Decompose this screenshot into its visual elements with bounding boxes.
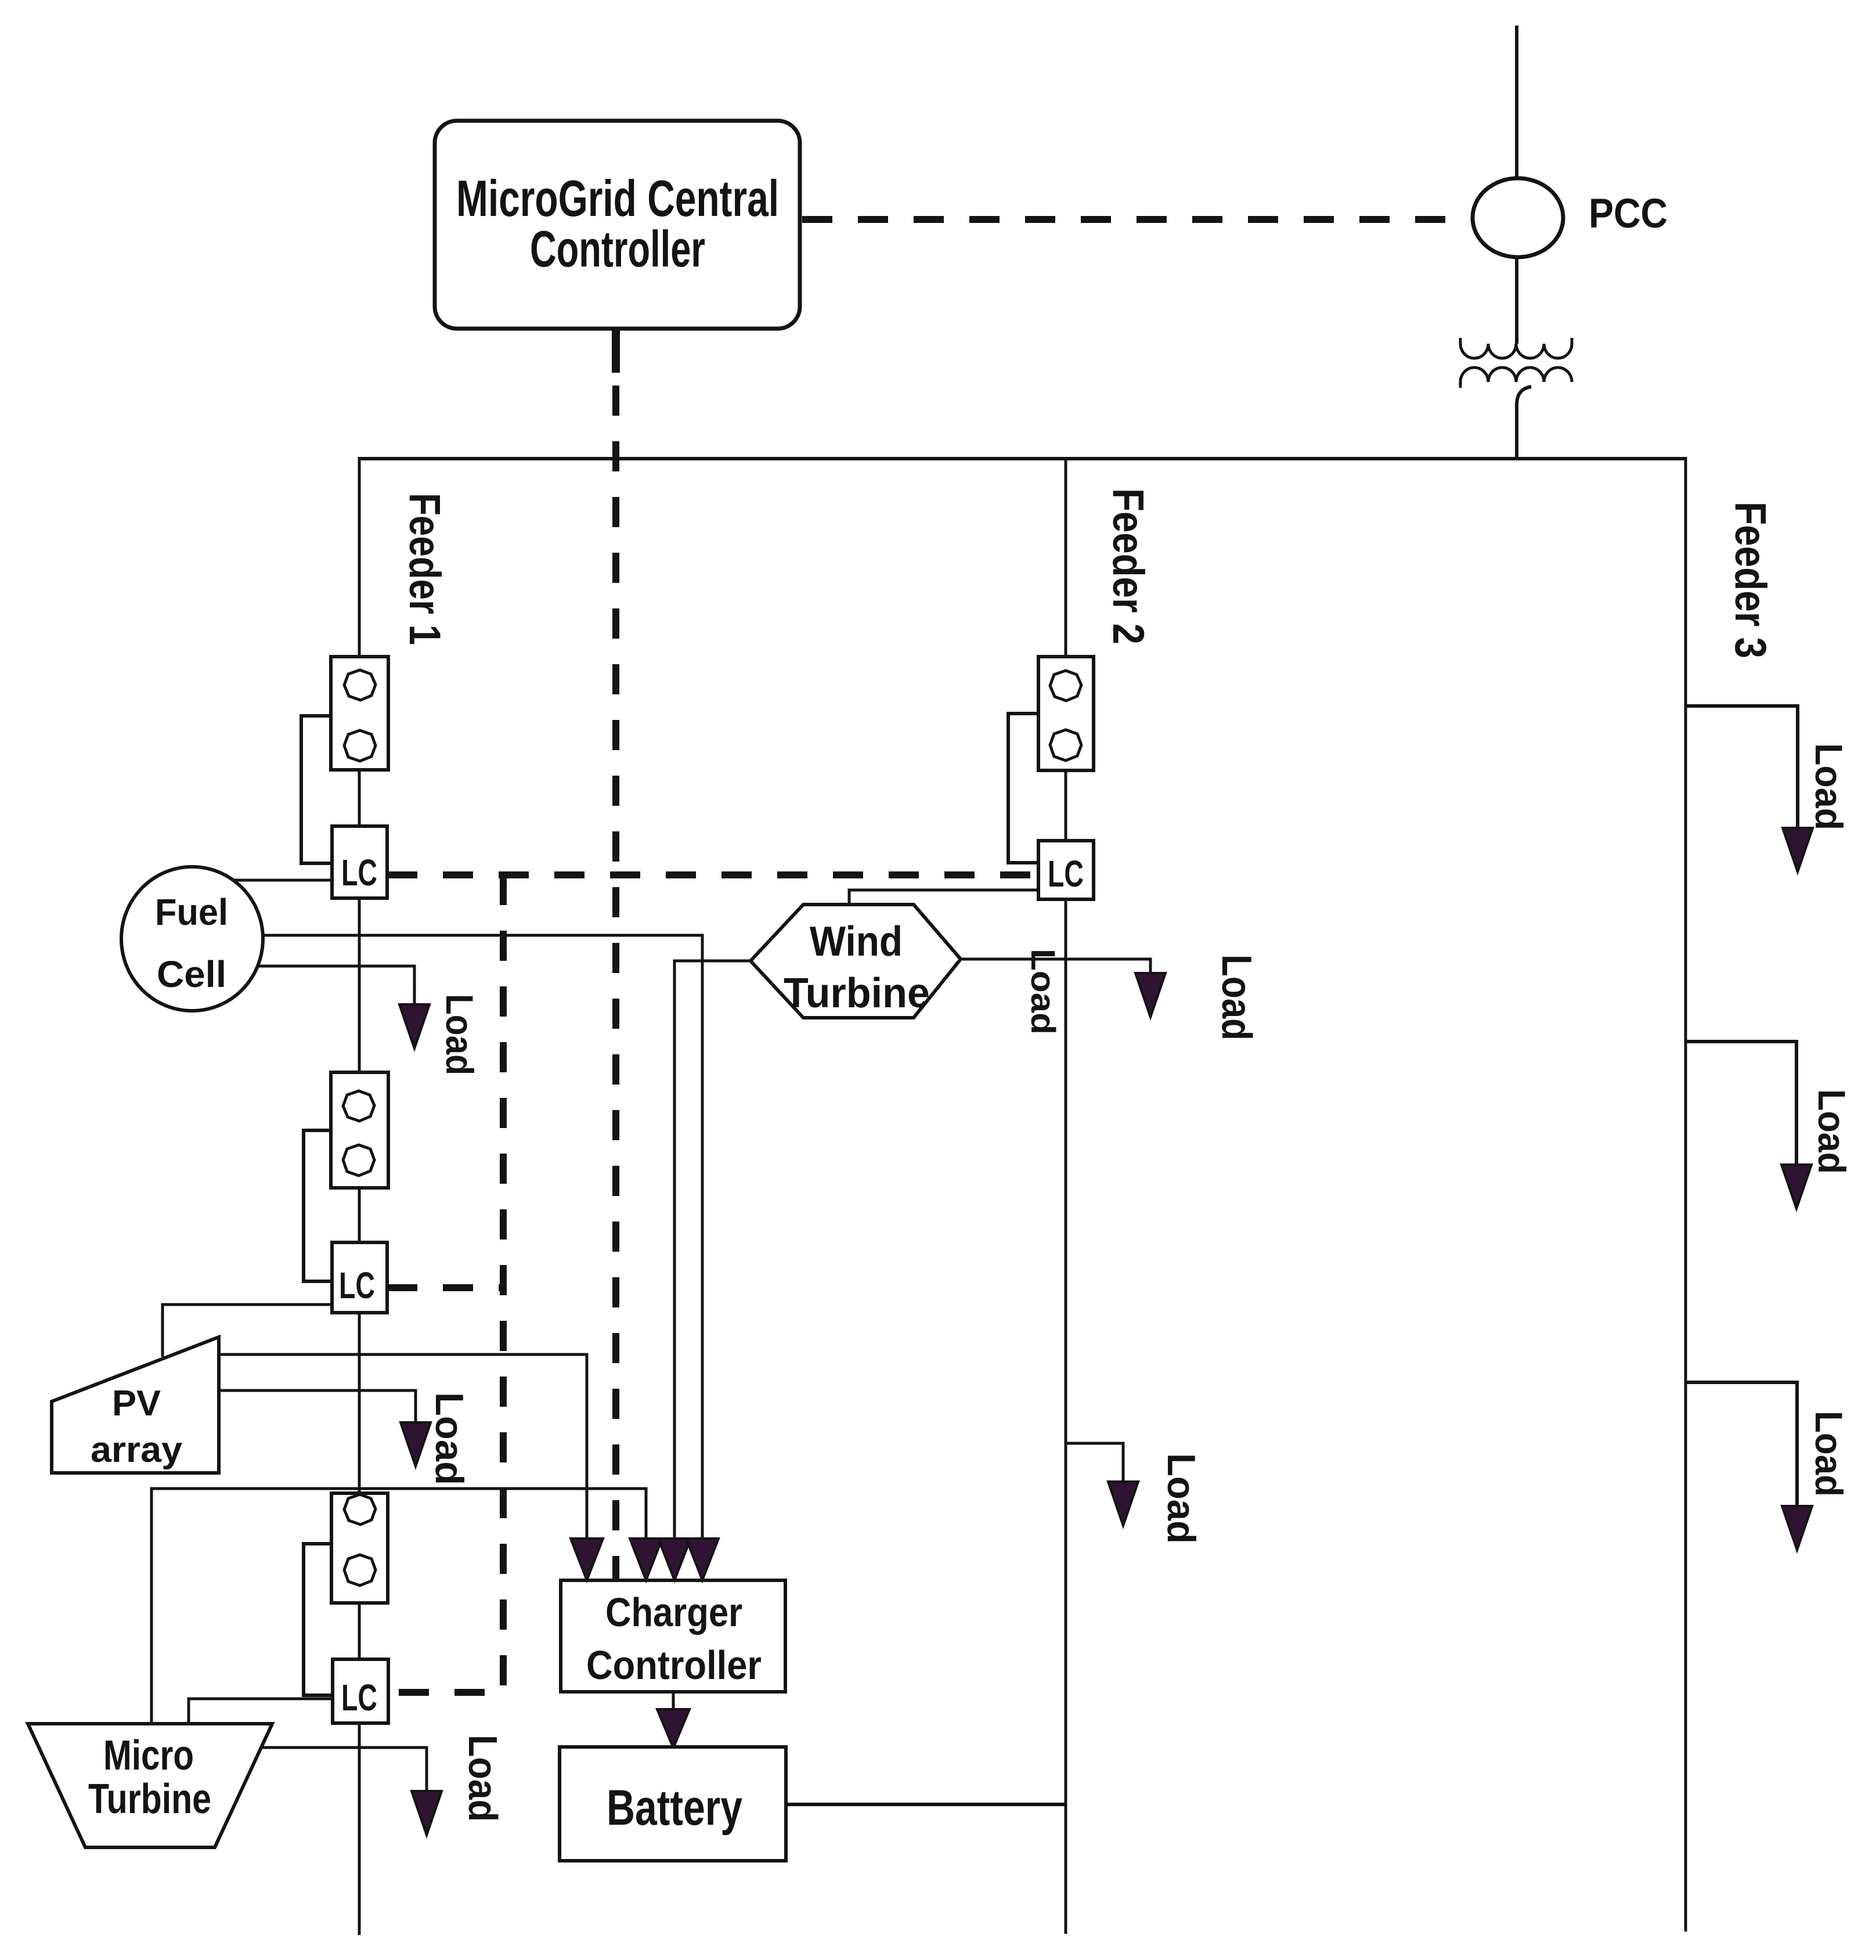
dashed comm line MGCC to Charger Controller — [612, 385, 619, 1580]
svg-text:Wind: Wind — [810, 918, 903, 965]
PV array source — [52, 1337, 219, 1473]
svg-text:Load: Load — [1808, 1411, 1850, 1497]
svg-text:LC: LC — [341, 852, 377, 893]
bracket CB1 to LC1 — [301, 716, 332, 863]
arrow charger controller to battery — [657, 1709, 690, 1748]
svg-text:Feeder 3: Feeder 3 — [1726, 502, 1775, 658]
Load label feeder3 tap1 — [1808, 743, 1850, 830]
Battery box — [560, 1747, 786, 1861]
svg-text:LC: LC — [339, 1264, 375, 1306]
MicroGrid Central Controller box — [435, 121, 800, 329]
svg-text:LC: LC — [341, 1677, 377, 1718]
load arrow micro turbine branch — [412, 1791, 442, 1835]
load arrow feeder3 tap3 — [1782, 1506, 1812, 1550]
Load label PV branch — [427, 1392, 471, 1485]
feeder3 load tap 3 — [1686, 1382, 1797, 1507]
feeder3 load tap 2 — [1686, 1042, 1796, 1166]
PCC label — [1589, 191, 1668, 237]
LC2 local controller feeder1-middle — [332, 1242, 387, 1313]
bracket CB2 to LC2 — [304, 1130, 332, 1281]
wire fuel cell to LC feeder1-top — [232, 879, 332, 882]
breaker CB3 feeder1 — [331, 1493, 388, 1603]
svg-text:Load: Load — [427, 1392, 471, 1485]
svg-text:Load: Load — [438, 994, 481, 1075]
wire grid line above PCC — [1515, 26, 1518, 179]
feeder 2 line — [1065, 457, 1067, 1934]
bracket CB4 to LC4 — [1008, 714, 1038, 863]
solid stub below MGCC — [612, 329, 620, 373]
wire wind turbine to charger controller — [674, 961, 751, 1540]
breaker CB1 feeder1 — [331, 657, 388, 770]
svg-text:array: array — [91, 1430, 183, 1470]
svg-text:Micro: Micro — [103, 1732, 194, 1779]
LC4 local controller feeder2 — [1038, 841, 1094, 899]
load arrow wind branch — [1135, 973, 1166, 1017]
svg-text:LC: LC — [1048, 853, 1084, 895]
wire micro turbine to load — [262, 1748, 427, 1792]
svg-text:Fuel: Fuel — [155, 891, 228, 933]
svg-text:Charger: Charger — [605, 1590, 742, 1635]
wire charger controller to battery — [672, 1692, 675, 1714]
Feeder 1 label — [400, 493, 449, 645]
Feeder 3 label — [1726, 502, 1775, 658]
Wind Turbine source — [751, 905, 961, 1018]
Charger Controller box — [561, 1580, 785, 1692]
dashed comm line LC feeder1-top to LC feeder2 — [387, 871, 1038, 878]
Load label feeder2 tap — [1159, 1453, 1203, 1544]
arrow micro turbine into charger controller — [630, 1539, 662, 1580]
Load label feeder3 tap2 — [1810, 1089, 1853, 1174]
wire transformer to main bus — [1515, 405, 1518, 460]
Load label feeder3 tap3 — [1808, 1411, 1850, 1497]
dashed comm line LC feeder1-middle to branch — [387, 1284, 503, 1291]
feeder 3 line — [1684, 457, 1687, 1932]
main bus — [359, 457, 1686, 460]
feeder3 load tap 1 — [1686, 706, 1798, 829]
disconnect switch hook below transformer — [1517, 387, 1531, 405]
dashed comm branch down to LC feeder1-bottom — [388, 875, 503, 1692]
svg-text:Load: Load — [1024, 949, 1062, 1035]
PCC node — [1473, 178, 1563, 257]
load arrow feeder2 tap — [1108, 1482, 1138, 1526]
load arrow feeder3 tap2 — [1781, 1165, 1812, 1209]
LC3 local controller feeder1-bottom — [333, 1659, 388, 1723]
wire wind turbine to LC feeder2 — [849, 890, 1038, 905]
load arrow PV branch — [401, 1422, 431, 1467]
arrow PV into charger controller — [571, 1539, 603, 1580]
Fuel Cell source — [121, 867, 263, 1011]
wire wind turbine to load across feeder2 — [961, 959, 1150, 974]
load arrow fuel cell branch — [399, 1004, 430, 1049]
svg-text:Load: Load — [1159, 1453, 1203, 1544]
wire battery to feeder2 — [786, 1803, 1066, 1806]
feeder 1 line — [358, 457, 361, 1935]
arrow wind turbine into charger controller — [658, 1539, 691, 1580]
Load label fuel cell branch — [438, 994, 481, 1075]
Load label micro turbine branch — [460, 1735, 506, 1822]
svg-text:Feeder 1: Feeder 1 — [400, 493, 449, 645]
wire fuel cell to charger controller — [263, 935, 702, 1540]
svg-text:Load: Load — [460, 1735, 506, 1822]
bracket CB3 to LC3 — [304, 1544, 333, 1695]
Load label wind branch — [1213, 954, 1260, 1040]
svg-text:Feeder 2: Feeder 2 — [1103, 488, 1153, 644]
Load label left of feeder2 — [1024, 949, 1062, 1035]
svg-text:MicroGrid Central: MicroGrid Central — [456, 170, 779, 227]
dashed comm line MGCC to PCC — [802, 216, 1473, 223]
wire micro turbine to charger controller — [151, 1489, 646, 1724]
svg-text:Turbine: Turbine — [784, 970, 930, 1017]
wire fuel cell to load — [257, 966, 414, 1006]
svg-text:Load: Load — [1213, 954, 1260, 1040]
svg-text:Load: Load — [1808, 743, 1850, 830]
Micro Turbine source — [28, 1724, 272, 1847]
breaker CB4 feeder2 — [1038, 657, 1094, 770]
svg-text:Load: Load — [1810, 1089, 1853, 1174]
arrow fuel cell into charger controller — [686, 1539, 719, 1580]
svg-text:Turbine: Turbine — [88, 1776, 211, 1822]
transformer T1 — [1460, 338, 1572, 388]
Feeder 2 label — [1103, 488, 1153, 644]
svg-text:Battery: Battery — [607, 1780, 742, 1836]
LC1 local controller feeder1-top — [332, 826, 387, 898]
wire PV array to LC feeder1-middle — [163, 1305, 332, 1357]
svg-text:PCC: PCC — [1589, 191, 1668, 237]
feeder2 load tap — [1066, 1443, 1123, 1483]
svg-text:PV: PV — [112, 1383, 161, 1424]
breaker CB2 feeder1 — [331, 1072, 388, 1188]
wire PV array to charger controller — [219, 1354, 587, 1540]
svg-text:Cell: Cell — [157, 953, 226, 995]
svg-text:Controller: Controller — [530, 220, 705, 278]
wire micro turbine to LC feeder1-bottom — [189, 1699, 333, 1724]
load arrow feeder3 tap1 — [1783, 828, 1813, 872]
wire PCC to transformer — [1515, 257, 1518, 344]
svg-text:Controller: Controller — [586, 1642, 762, 1688]
wire PV array to load — [219, 1390, 416, 1424]
